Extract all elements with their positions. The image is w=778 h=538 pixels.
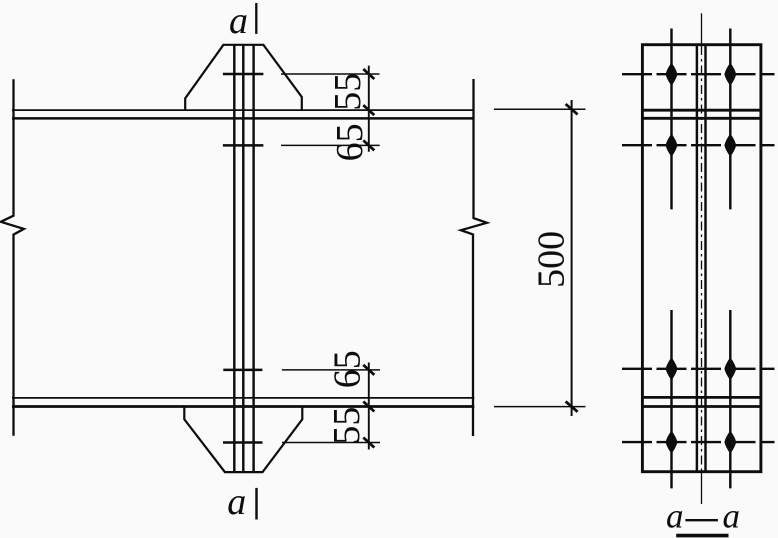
svg-text:a: a [227,481,246,523]
svg-text:a: a [666,497,684,536]
svg-text:500: 500 [531,231,573,288]
svg-text:55: 55 [327,73,369,111]
svg-text:65: 65 [326,350,368,388]
svg-text:65: 65 [329,123,371,161]
svg-text:a: a [723,497,741,536]
svg-text:a: a [229,0,248,42]
svg-text:55: 55 [326,407,368,445]
